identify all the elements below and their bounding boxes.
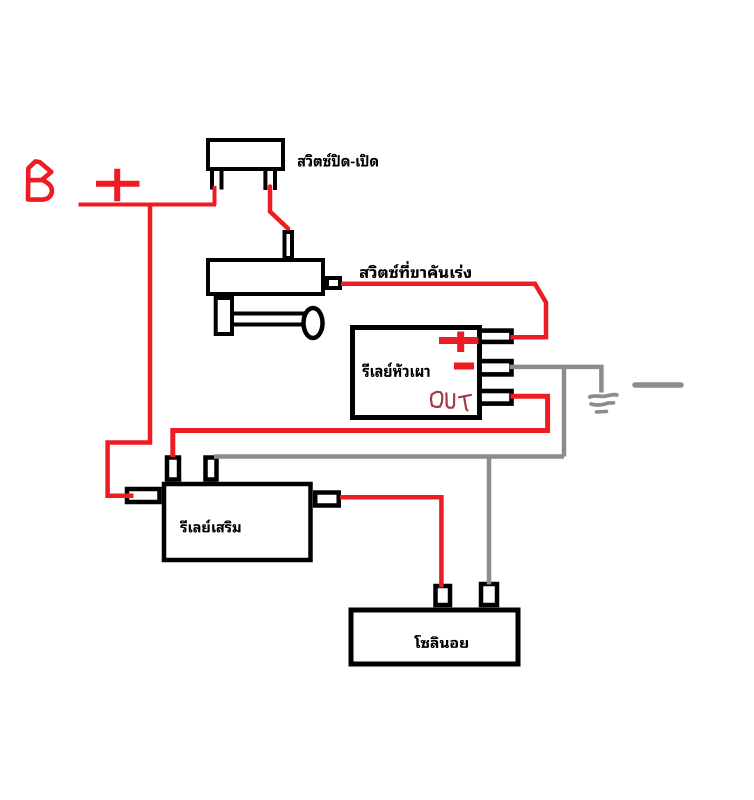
glow relay plus marking [439, 332, 478, 353]
battery plus symbol [96, 169, 140, 201]
solenoid left pin [436, 586, 451, 605]
label: glow plug relay (รีเลย์หัวเผา) [362, 363, 429, 378]
label: auxiliary relay (รีเลย์เสริม) [180, 520, 241, 533]
throttle switch right pin [327, 278, 340, 288]
label: switch on-off (สวิตซ์ปิด-เปิด) [298, 153, 378, 167]
solenoid body [351, 610, 518, 664]
wire: glow relay pin 2 to ground (gray) [510, 367, 602, 393]
glow plug relay body [353, 328, 480, 418]
throttle switch bracket [216, 298, 232, 334]
aux relay left pin [127, 489, 160, 502]
wire: glow relay pin 3 OUT to aux relay pin A [173, 396, 548, 457]
switch S1 right leg pin [265, 169, 275, 190]
wire: gray horizontal into aux relay pin B [214, 454, 564, 459]
wire: aux relay right pin to solenoid left pin [340, 497, 441, 587]
battery terminal label B (hand-drawn) [28, 161, 52, 199]
glow relay pin 3 (OUT) [480, 391, 512, 404]
switch S1 body (on-off switch) [208, 140, 283, 169]
wire: S1 left leg down to bus [213, 186, 217, 205]
glow relay OUT marking (handwritten) [431, 392, 471, 411]
throttle switch roller [304, 308, 323, 338]
label: solenoid (โซลินอย) [414, 635, 468, 648]
ground symbol [590, 395, 617, 412]
glow relay pin 2 (-) [480, 361, 512, 374]
wire: bus down with jog to aux relay left pin [108, 205, 150, 496]
auxiliary relay body [164, 484, 311, 560]
wire: gray down to solenoid right pin [487, 457, 492, 585]
glow relay minus marking [454, 363, 474, 370]
wire: gray branch down from pin2 line [562, 367, 567, 457]
throttle switch S2 body [208, 260, 323, 294]
aux relay right pin [315, 493, 339, 506]
wire: B+ bus horizontal [79, 203, 217, 207]
throttle switch plunger rod [234, 314, 306, 325]
label: switch at throttle pedal (สวิตซ์ที่ขาคันเร่ง) [360, 261, 471, 278]
glow relay pin 1 (+) [480, 331, 512, 342]
solenoid right pin [481, 584, 497, 605]
wire: S1 right leg to throttle top pin [270, 187, 288, 229]
aux relay top pin B [206, 458, 217, 480]
switch S1 left leg pin [212, 169, 222, 190]
wire: throttle right pin to glow relay pin 1 [341, 284, 546, 338]
throttle switch top pin [285, 232, 293, 258]
gray chassis stub (unconnected dash) [635, 382, 681, 388]
aux relay top pin A [167, 458, 179, 480]
